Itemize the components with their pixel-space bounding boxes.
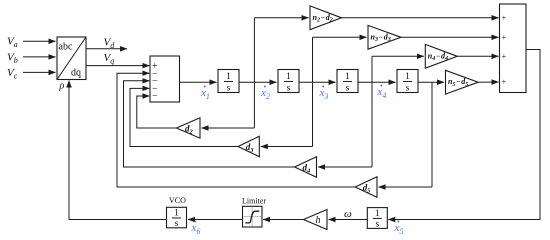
wire I4 to gain N5: [418, 81, 444, 83]
svg-text:+: +: [502, 51, 507, 61]
wire T1 to gain D2: [202, 127, 255, 129]
gain N2 (n2-d2): [310, 6, 342, 30]
gain D3 (d3): [238, 136, 259, 156]
wire Vb input: [23, 56, 56, 58]
integrator I3 (1/s): [337, 70, 358, 93]
wire T2 to gain D3: [261, 146, 313, 148]
wire VCO output to rho input of U1: [69, 81, 166, 220]
svg-text:dq: dq: [71, 68, 81, 79]
summer S2 (++++): [500, 4, 527, 93]
wire H to limiter: [263, 219, 303, 221]
gain N4 (n4-d4): [425, 44, 457, 68]
svg-text:s: s: [375, 220, 379, 230]
svg-text:s: s: [287, 84, 291, 94]
wire T3 to gain D4: [318, 166, 372, 168]
svg-text:abc: abc: [59, 42, 73, 53]
wire Vd output arrow: [86, 48, 127, 50]
integrator I5 (1/s): [367, 208, 387, 229]
svg-text:1: 1: [375, 209, 380, 219]
wire summer S1 output to integrator I1: [180, 81, 217, 83]
wire summer S2 output to integrator I5: [388, 50, 540, 220]
integrator I1 (1/s): [218, 70, 239, 93]
wire I1 to I2: [239, 81, 277, 83]
svg-text:h: h: [316, 215, 321, 226]
wire tap T4 vertical (x5 node): [431, 82, 433, 187]
wire T1 to gain N2: [254, 17, 308, 19]
svg-text:+: +: [502, 32, 507, 42]
wire D3 feedback to summer S1 input 4: [130, 88, 238, 146]
wire tap T2 vertical (x3 node): [312, 37, 314, 146]
svg-text:s: s: [346, 84, 350, 94]
wire T4 to gain D5: [379, 186, 433, 188]
wire Vc input: [23, 71, 56, 73]
svg-text:−: −: [152, 91, 158, 102]
gain D2 (d2): [177, 118, 201, 138]
gain D4 (d4): [295, 157, 317, 177]
svg-text:+: +: [502, 13, 507, 23]
wire D2 feedback to summer S1 input 5: [137, 96, 177, 128]
gain D5 (d5): [355, 177, 377, 197]
svg-text:s: s: [175, 219, 179, 229]
svg-text:ω: ω: [344, 208, 352, 220]
gain H (h): [304, 210, 328, 230]
svg-text:1: 1: [345, 72, 350, 82]
gain N3 (n3-d3): [368, 25, 401, 49]
wire tap T3 vertical (x4 node): [371, 56, 373, 167]
gain N5 (n5-d5): [446, 70, 479, 94]
wire N2 to summer S2 input 1: [342, 17, 499, 19]
integrator I4 (1/s): [397, 70, 418, 93]
svg-text:1: 1: [226, 72, 231, 82]
svg-text:s: s: [227, 84, 231, 94]
integrator I2 (1/s): [278, 70, 299, 93]
svg-text:s: s: [406, 84, 410, 94]
svg-text:1: 1: [286, 72, 291, 82]
wire limiter to VCO: [188, 219, 243, 221]
svg-text:Limiter: Limiter: [242, 197, 266, 206]
wire N3 to summer S2 input 2: [401, 36, 499, 38]
svg-text:ρ: ρ: [59, 81, 65, 92]
wire T2 to gain N3: [313, 36, 367, 38]
svg-text:VCO: VCO: [169, 196, 186, 205]
wire T3 to gain N4: [372, 55, 424, 57]
svg-text:1: 1: [174, 209, 179, 219]
wire I3 to I4: [358, 81, 396, 83]
wire I2 to I3: [299, 81, 336, 83]
block U1 abc-to-dq transform: [57, 37, 86, 80]
wire D5 feedback to summer S1 input 2: [117, 73, 355, 187]
wire D4 feedback to summer S1 input 3: [124, 81, 295, 167]
wire tap T1 vertical (x2 node): [253, 18, 255, 128]
wire I5 to gain H: [329, 219, 368, 221]
wire N4 to summer S2 input 3: [457, 55, 498, 57]
wire Vq to summer input 1: [86, 65, 149, 67]
svg-text:1: 1: [405, 72, 410, 82]
wire N5 to summer S2 input 4: [478, 81, 498, 83]
wire Va input: [23, 40, 56, 42]
svg-text:+: +: [502, 77, 507, 87]
